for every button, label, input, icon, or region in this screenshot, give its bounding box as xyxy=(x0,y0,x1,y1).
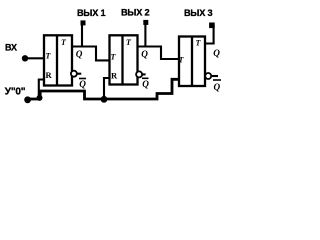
svg-text:Q: Q xyxy=(141,49,148,59)
svg-text:R: R xyxy=(46,70,53,80)
svg-text:ВЫХ 1: ВЫХ 1 xyxy=(77,8,106,18)
svg-text:Q: Q xyxy=(213,48,220,58)
svg-text:У"0": У"0" xyxy=(5,86,26,97)
svg-text:Q: Q xyxy=(79,79,86,89)
svg-text:Q: Q xyxy=(142,79,149,89)
svg-text:ВЫХ 2: ВЫХ 2 xyxy=(121,8,150,18)
svg-text:ВХ: ВХ xyxy=(5,43,17,53)
svg-text:Q: Q xyxy=(76,49,83,59)
svg-text:Q: Q xyxy=(214,82,221,92)
svg-text:ВЫХ 3: ВЫХ 3 xyxy=(184,8,213,18)
svg-text:R: R xyxy=(111,71,118,81)
